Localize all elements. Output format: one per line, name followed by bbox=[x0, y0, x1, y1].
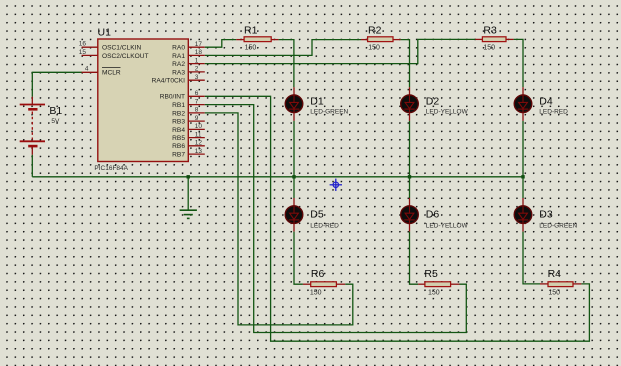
svg-text:13: 13 bbox=[195, 148, 203, 155]
svg-text:12: 12 bbox=[195, 140, 203, 147]
svg-text:6: 6 bbox=[195, 90, 199, 97]
wire battery+ to MCLR pin4 bbox=[31, 97, 33, 105]
U1 pin name labels bbox=[102, 45, 185, 159]
svg-text:D6: D6 bbox=[426, 209, 440, 221]
svg-text:RB3: RB3 bbox=[172, 119, 185, 126]
svg-text:LED-YELLOW: LED-YELLOW bbox=[426, 108, 469, 115]
resistor R1 bbox=[236, 25, 278, 52]
svg-text:17: 17 bbox=[195, 41, 203, 48]
svg-text:150: 150 bbox=[428, 290, 440, 297]
wire R2 to D2 bbox=[401, 40, 410, 88]
svg-text:RB6: RB6 bbox=[172, 143, 185, 150]
svg-text:4: 4 bbox=[85, 66, 89, 73]
svg-text:150: 150 bbox=[310, 290, 322, 297]
LED D4 bbox=[514, 87, 568, 121]
U1 right pin stubs RA0-RA4 bbox=[188, 41, 205, 81]
svg-text:R3: R3 bbox=[483, 25, 497, 37]
svg-text:LED-RED: LED-RED bbox=[310, 222, 339, 229]
svg-text:RA1: RA1 bbox=[172, 53, 185, 60]
resistor R3 bbox=[475, 25, 513, 52]
wire rail to D6 bbox=[409, 177, 411, 198]
LED D3 bbox=[514, 198, 577, 232]
svg-text:150: 150 bbox=[483, 45, 495, 52]
svg-text:R1: R1 bbox=[244, 25, 258, 37]
svg-text:1: 1 bbox=[195, 57, 199, 64]
microcontroller U1 PIC16F84A bbox=[94, 27, 188, 172]
svg-text:OSC2/CLKOUT: OSC2/CLKOUT bbox=[102, 53, 149, 60]
svg-text:RA4/T0CKI: RA4/T0CKI bbox=[152, 78, 186, 85]
svg-text:R5: R5 bbox=[424, 268, 438, 280]
svg-text:D3: D3 bbox=[539, 209, 553, 221]
svg-text:9: 9 bbox=[195, 115, 199, 122]
LED D1 bbox=[285, 87, 348, 121]
wire rail to D3 bbox=[522, 177, 524, 198]
svg-text:RB0/INT: RB0/INT bbox=[160, 94, 185, 101]
wire R5 to RB1 pin7 bbox=[205, 105, 467, 333]
svg-text:RB7: RB7 bbox=[172, 152, 185, 159]
svg-text:RA2: RA2 bbox=[172, 61, 185, 68]
wire R3 to D4 bbox=[514, 39, 523, 87]
wire rail to D5 bbox=[293, 177, 295, 198]
svg-text:150: 150 bbox=[368, 45, 380, 52]
wire D3 to R4 bbox=[523, 232, 540, 284]
wire R6 to RB2 pin8 bbox=[205, 113, 353, 325]
resistor R4 bbox=[540, 268, 581, 297]
LED D6 bbox=[401, 198, 469, 232]
ground rail wire bbox=[32, 176, 523, 178]
ground symbol bbox=[180, 177, 197, 219]
svg-text:RA0: RA0 bbox=[172, 45, 185, 52]
svg-text:R6: R6 bbox=[311, 268, 325, 280]
svg-text:2: 2 bbox=[195, 66, 199, 73]
svg-text:D4: D4 bbox=[539, 95, 553, 107]
svg-text:LED-GREEN: LED-GREEN bbox=[310, 108, 348, 115]
svg-text:10: 10 bbox=[195, 123, 203, 130]
svg-text:OSC1/CLKIN: OSC1/CLKIN bbox=[102, 45, 141, 52]
resistor R6 bbox=[303, 268, 345, 297]
origin marker bbox=[330, 179, 342, 191]
junction node D1/D5 column bbox=[292, 175, 295, 178]
svg-text:18: 18 bbox=[195, 49, 203, 56]
LED D2 bbox=[401, 87, 469, 121]
wire R1 to D1 bbox=[279, 40, 294, 88]
svg-text:LED-GREEN: LED-GREEN bbox=[539, 222, 577, 229]
svg-text:3: 3 bbox=[195, 74, 199, 81]
wire RA0 to R1 bbox=[205, 40, 236, 48]
svg-text:R2: R2 bbox=[368, 25, 382, 37]
wire D6 to R5 bbox=[410, 232, 419, 285]
wire R4 to RB0 pin6 bbox=[205, 96, 590, 341]
wire battery- down to ground rail bbox=[31, 146, 33, 155]
junction node D4/D3 column bbox=[521, 175, 524, 178]
wire D1 to rail bbox=[293, 121, 295, 177]
svg-text:15: 15 bbox=[79, 49, 87, 56]
svg-text:5V: 5V bbox=[51, 118, 60, 125]
svg-text:D5: D5 bbox=[310, 209, 324, 221]
svg-text:RA3: RA3 bbox=[172, 69, 185, 76]
svg-text:8: 8 bbox=[195, 107, 199, 114]
svg-text:RB2: RB2 bbox=[172, 110, 185, 117]
svg-text:MCLR: MCLR bbox=[102, 70, 121, 77]
svg-text:LED-RED: LED-RED bbox=[539, 108, 568, 115]
LED D5 bbox=[285, 198, 339, 232]
U1 left pin stubs 16,15,4 bbox=[79, 41, 98, 73]
svg-text:RB5: RB5 bbox=[172, 135, 185, 142]
svg-text:LED-YELLOW: LED-YELLOW bbox=[426, 222, 469, 229]
wire D2 to rail bbox=[409, 121, 411, 177]
junction node D2/D6 column bbox=[408, 175, 411, 178]
junction ground tap bbox=[187, 175, 190, 178]
wire D5 to R6 bbox=[294, 232, 303, 285]
svg-text:R4: R4 bbox=[548, 268, 562, 280]
svg-text:16: 16 bbox=[79, 41, 87, 48]
battery B1 bbox=[20, 105, 63, 147]
wire RA1 to R2 bbox=[205, 40, 361, 56]
wire D4 to rail bbox=[522, 121, 524, 177]
svg-text:U1: U1 bbox=[98, 27, 112, 39]
svg-text:D2: D2 bbox=[426, 95, 440, 107]
U1 right pin stubs RB0-RB7 bbox=[188, 90, 205, 155]
svg-text:RB4: RB4 bbox=[172, 127, 185, 134]
svg-text:PIC16F84A: PIC16F84A bbox=[94, 165, 128, 172]
resistor R5 bbox=[418, 268, 459, 297]
svg-text:7: 7 bbox=[195, 98, 199, 105]
wire RA2 to R3 bbox=[205, 39, 476, 63]
svg-text:11: 11 bbox=[195, 131, 202, 138]
svg-text:150: 150 bbox=[245, 45, 257, 52]
svg-text:B1: B1 bbox=[49, 105, 62, 117]
resistor R2 bbox=[361, 25, 401, 52]
svg-text:D1: D1 bbox=[310, 95, 324, 107]
svg-text:150: 150 bbox=[548, 290, 560, 297]
svg-text:RB1: RB1 bbox=[172, 102, 185, 109]
